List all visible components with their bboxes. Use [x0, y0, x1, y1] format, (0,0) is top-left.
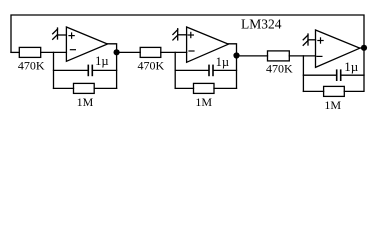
wire 1M loop right stage3 [344, 48, 364, 92]
wire stage3 input [237, 55, 268, 57]
pin plus U1A [69, 33, 74, 38]
wire R2 to U1B inverting input [161, 51, 187, 53]
svg-text:1M: 1M [324, 98, 341, 112]
wire C1 right [93, 69, 117, 71]
svg-text:1M: 1M [77, 95, 94, 109]
wire 1M loop right stage2 [214, 87, 237, 89]
wire 1M loop left stage3 [303, 90, 323, 92]
node stage1 output junction [114, 49, 120, 55]
wire U1A output [108, 44, 117, 89]
svg-text:LM324: LM324 [241, 17, 282, 32]
wire node1 vertical drop [53, 52, 55, 88]
svg-text:1µ: 1µ [95, 54, 108, 68]
resistor 1M stage3 [324, 86, 345, 96]
node stage2 output junction [233, 52, 239, 58]
resistor R2 470K [140, 47, 161, 57]
wire node2 vertical drop [174, 52, 176, 88]
svg-text:1µ: 1µ [216, 55, 229, 69]
resistor R1 470K [19, 47, 40, 57]
op-amp U1C [316, 30, 360, 67]
svg-text:470K: 470K [266, 62, 293, 76]
capacitor C2 1u [208, 65, 210, 75]
wire stage2 input [117, 51, 141, 53]
pin minus U1A [70, 49, 75, 51]
svg-text:1µ: 1µ [344, 59, 359, 74]
wire R3 to U1C inverting input [289, 55, 315, 57]
svg-text:470K: 470K [18, 59, 45, 73]
wire 1M loop left stage1 [54, 87, 74, 89]
resistor 1M stage2 [194, 83, 215, 93]
svg-text:470K: 470K [137, 59, 164, 73]
wire top feedback rail [11, 15, 364, 52]
wire C2 left [175, 69, 208, 71]
wire U1C output [360, 47, 364, 49]
pin minus U1C [317, 55, 322, 57]
bias symbol stage2 [173, 29, 187, 40]
wire R1 to U1 inverting input [41, 51, 67, 53]
wire stage1 input [11, 51, 19, 53]
wire U1B output [228, 44, 236, 89]
capacitor C3 1u [336, 70, 338, 80]
node stage3 output junction [361, 45, 367, 51]
resistor R3 470K [268, 51, 290, 61]
op-amp U1B [187, 27, 229, 62]
wire C3 right [341, 74, 364, 76]
pin plus U1C [318, 38, 323, 43]
bias symbol stage1 [53, 28, 67, 39]
op-amp U1A [66, 27, 107, 61]
wire C1 left [54, 69, 88, 71]
pin minus U1B [189, 50, 194, 52]
wire C2 right [214, 69, 237, 71]
wire C3 left [303, 74, 336, 76]
wire node3 vertical drop [302, 56, 304, 92]
pin plus U1B [188, 32, 193, 37]
wire 1M loop left stage2 [175, 87, 193, 89]
resistor 1M stage1 [74, 83, 95, 93]
capacitor C1 1u [87, 65, 89, 75]
svg-text:1M: 1M [195, 95, 212, 109]
bias symbol stage3 [303, 34, 315, 45]
wire 1M loop right stage1 [94, 87, 116, 89]
